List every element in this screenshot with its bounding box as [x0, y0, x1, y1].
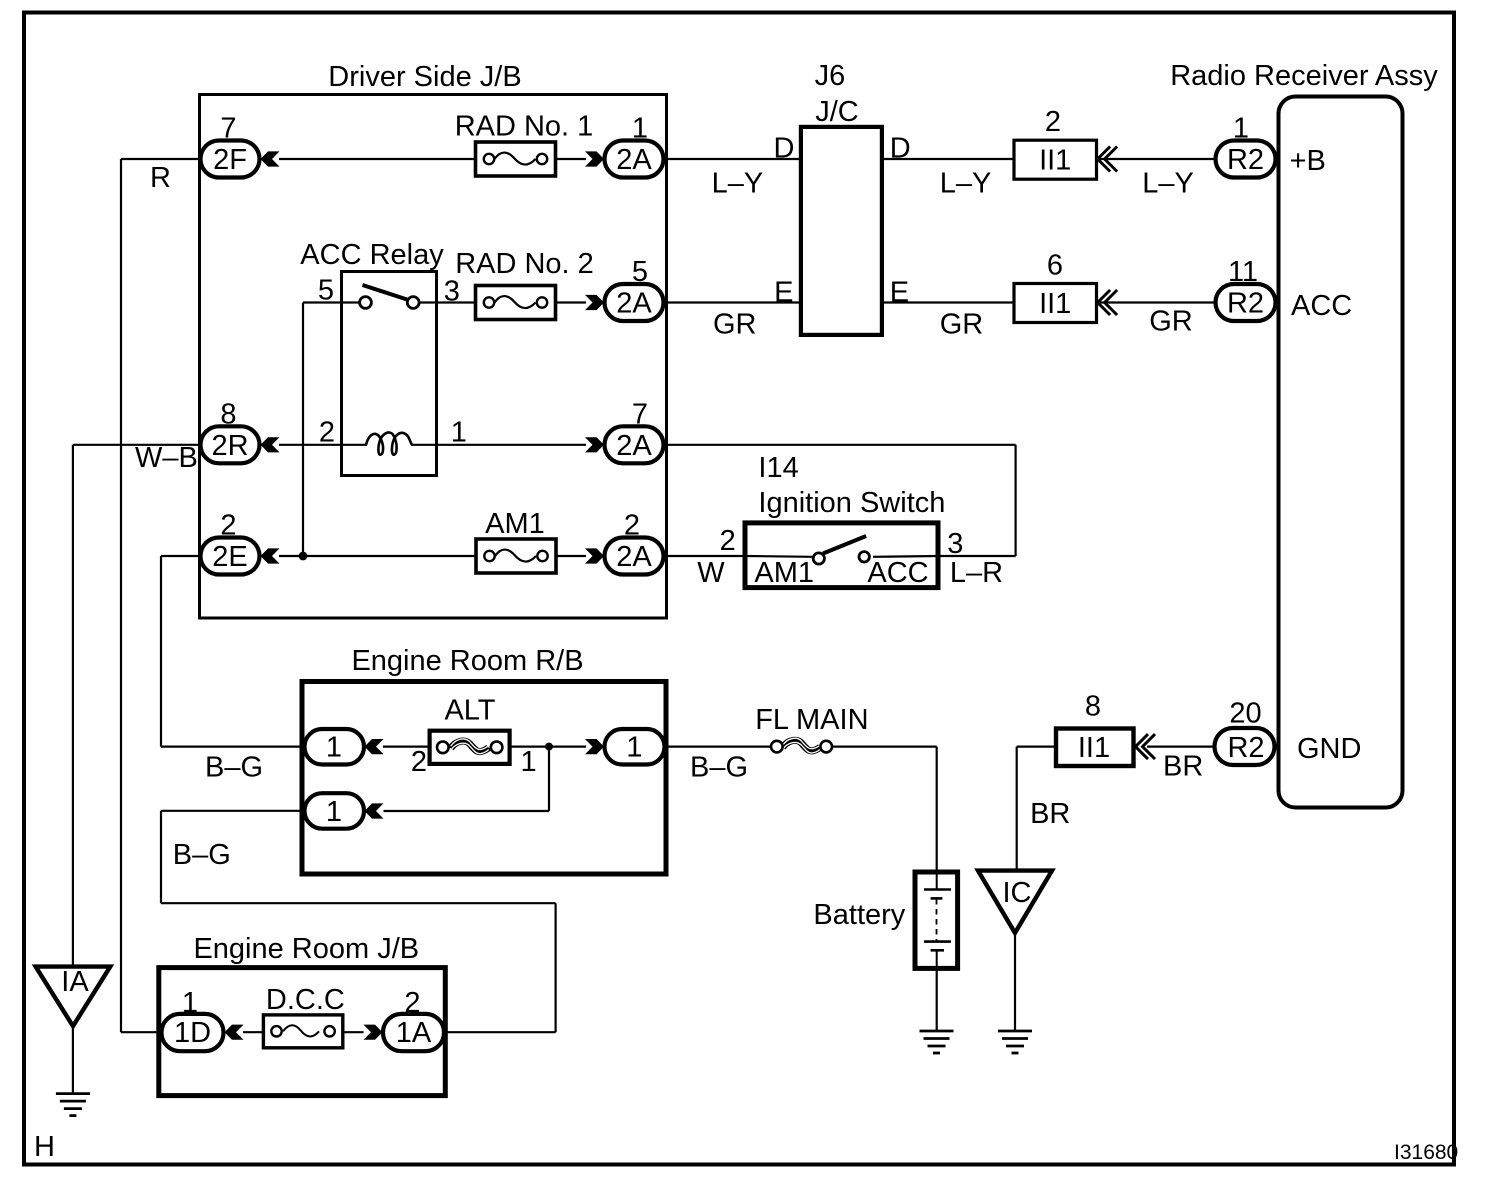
arrowhead into 2R [261, 437, 280, 452]
svg-text:IC: IC [1003, 877, 1032, 909]
svg-text:RAD No. 1: RAD No. 1 [455, 111, 594, 143]
wire row1 2F to RAD No.1 [279, 158, 476, 160]
wire AM1 to 2A [556, 555, 586, 557]
svg-text:GR: GR [940, 309, 984, 341]
fusible element ALT braid [451, 739, 489, 754]
fuse AM1 [476, 539, 556, 573]
svg-text:GR: GR [1149, 306, 1193, 338]
svg-text:2F: 2F [213, 144, 247, 176]
svg-text:B–G: B–G [690, 752, 748, 784]
node ALT output junction [545, 743, 553, 751]
svg-text:1A: 1A [396, 1017, 432, 1049]
svg-text:2: 2 [411, 746, 427, 778]
wire W 2A to ignition switch [663, 555, 746, 557]
svg-text:L–R: L–R [950, 557, 1003, 589]
svg-text:2A: 2A [616, 288, 652, 320]
svg-text:Engine Room J/B: Engine Room J/B [193, 933, 419, 965]
wire GR II1 to R2 [1100, 301, 1216, 303]
wire B-G vertical 2E to R/B [160, 556, 162, 747]
node junction at 2E [299, 552, 308, 561]
component Radio Receiver Assy box [1279, 97, 1403, 808]
svg-text:11: 11 [1228, 256, 1258, 288]
svg-text:ACC: ACC [1291, 290, 1352, 322]
connector R2 pin 1 [1216, 141, 1276, 178]
relay contact blade [363, 285, 408, 300]
wire coil pin1 to 2A [411, 444, 586, 446]
svg-text:Battery: Battery [813, 899, 905, 931]
svg-text:D: D [890, 133, 911, 165]
wire ignition riser vertical [1014, 445, 1016, 556]
svg-text:B–G: B–G [205, 752, 263, 784]
wire B-G drop to 1A [554, 903, 556, 1032]
svg-text:3: 3 [444, 276, 460, 308]
wire into second R/B oval [384, 810, 550, 812]
wire 2E left to B-G drop [161, 555, 200, 557]
connector 2R [201, 426, 260, 463]
wire junction drop to oval row [548, 747, 550, 811]
wire 2R to relay coil pin2 [279, 444, 367, 446]
svg-text:ACC Relay: ACC Relay [300, 239, 444, 271]
connector 1A [383, 1014, 444, 1051]
chevron into II1 pin8 [1136, 734, 1156, 759]
battery internal plates [924, 872, 951, 968]
connector II1 pin 2 [1014, 140, 1097, 179]
connector 1 lower row [305, 793, 365, 829]
wire L-R ignition pin3 [938, 555, 1016, 557]
svg-text:Ignition Switch: Ignition Switch [758, 487, 945, 519]
relay contact circles [360, 297, 372, 309]
fuse RAD No. 1 [476, 142, 556, 176]
svg-text:AM1: AM1 [754, 557, 814, 589]
svg-text:20: 20 [1229, 698, 1261, 730]
wire ignition internal left [746, 555, 812, 558]
svg-text:W–B: W–B [135, 442, 198, 474]
chevron into II1 row1 [1098, 147, 1118, 172]
wire FL MAIN to battery corner [833, 745, 937, 747]
relay ACC Relay box [342, 272, 437, 476]
svg-text:H: H [34, 1131, 55, 1163]
connector 2A pin 7 [605, 426, 664, 463]
svg-text:R2: R2 [1227, 732, 1264, 764]
wire battery vertical [936, 747, 938, 872]
svg-text:2: 2 [1045, 106, 1061, 138]
svg-text:II1: II1 [1078, 732, 1110, 764]
connector 2F [201, 141, 260, 178]
ground symbol below IC [998, 1031, 1032, 1053]
arrowhead into 2A pin1 [585, 151, 604, 166]
svg-text:5: 5 [632, 256, 648, 288]
svg-text:7: 7 [632, 398, 648, 430]
svg-text:2: 2 [319, 416, 335, 448]
junction connector J6 J/C [801, 127, 882, 335]
battery [915, 872, 958, 968]
ground triangle IA [36, 967, 111, 1027]
svg-text:2E: 2E [212, 541, 247, 573]
svg-text:5: 5 [318, 275, 334, 307]
svg-text:I31680: I31680 [1394, 1141, 1458, 1164]
arrowhead into 2A pin2 [585, 548, 604, 563]
wire GR 2A to J/C pin E [663, 301, 801, 303]
wire B-G bottom horizontal run [161, 902, 556, 904]
wire B-G into R/B oval 1 [161, 745, 305, 747]
svg-text:1: 1 [182, 987, 198, 1019]
connector 2E [201, 538, 260, 575]
ignition blade [823, 536, 866, 554]
ground triangle IC [978, 871, 1052, 933]
svg-text:8: 8 [1085, 691, 1101, 723]
svg-text:J6: J6 [815, 60, 846, 92]
wire R horizontal into 1D [121, 1031, 162, 1033]
svg-text:7: 7 [220, 113, 236, 145]
svg-text:R: R [150, 162, 171, 194]
arrowhead into 2E [261, 548, 280, 563]
arrowhead into lower oval 1 [365, 803, 384, 818]
svg-text:6: 6 [1047, 250, 1063, 282]
svg-text:2A: 2A [616, 430, 652, 462]
wire R/B oval to ALT fuse [383, 745, 430, 747]
arrowhead into right oval 1 [585, 739, 604, 754]
wire IC to ground [1014, 931, 1016, 1031]
chevron into II1 row2 [1098, 290, 1118, 315]
ground symbol below IA [56, 1094, 90, 1116]
svg-text:L–Y: L–Y [940, 168, 992, 200]
wire battery to ground [936, 968, 938, 1031]
svg-text:FL MAIN: FL MAIN [755, 704, 868, 736]
connector 1D [162, 1014, 224, 1051]
svg-text:RAD No. 2: RAD No. 2 [455, 248, 594, 280]
wire 2E to AM1 fuse [279, 555, 476, 557]
svg-text:GR: GR [713, 309, 757, 341]
arrowhead into 2F [261, 151, 280, 166]
svg-text:+B: +B [1290, 145, 1326, 177]
wire BR vertical to IC [1016, 747, 1018, 871]
svg-text:2: 2 [404, 987, 420, 1019]
svg-text:I14: I14 [758, 452, 798, 484]
svg-text:2: 2 [624, 510, 640, 542]
fuse RAD No. 2 [476, 286, 556, 320]
wire B-G vertical to bottom run [160, 811, 162, 903]
wire 1D to D.C.C [243, 1031, 264, 1033]
wire BR II1 to R2 GND [1147, 745, 1215, 747]
connector R2 pin 20 [1215, 728, 1275, 765]
wire 2A pin7 to ignition riser [663, 444, 1016, 446]
wire RAD No.2 to 2A [555, 301, 586, 303]
wire ALT to right oval with node [510, 745, 586, 747]
svg-text:II1: II1 [1039, 288, 1071, 320]
arrowhead into 2A pin5 [585, 295, 604, 310]
wire W-B vertical to IA [72, 445, 74, 967]
wire B-G right oval to FL MAIN [665, 745, 771, 747]
svg-text:1: 1 [326, 732, 342, 764]
fuse D.C.C [263, 1015, 342, 1048]
connector 1 right of ALT [605, 729, 665, 765]
arrowhead into 1A [364, 1025, 383, 1040]
svg-text:W: W [697, 557, 725, 589]
svg-text:GND: GND [1297, 733, 1361, 765]
relay block Engine Room R/B [302, 682, 666, 875]
svg-text:1: 1 [451, 416, 467, 448]
connector R2 pin 11 [1216, 284, 1276, 321]
junction block Engine Room J/B [159, 968, 446, 1096]
svg-text:Radio Receiver Assy: Radio Receiver Assy [1170, 60, 1438, 92]
junction block Driver Side J/B [200, 95, 667, 619]
svg-text:8: 8 [220, 398, 236, 430]
wire ignition internal right [873, 555, 938, 558]
wire W-B row3 left of 2R [73, 444, 200, 446]
connector 2A pin 5 [605, 284, 664, 321]
svg-text:E: E [890, 277, 909, 309]
wire relay pin3 to RAD No.2 [420, 301, 476, 303]
svg-text:1: 1 [626, 732, 642, 764]
svg-text:2A: 2A [616, 541, 652, 573]
svg-text:2: 2 [220, 510, 236, 542]
wire D.C.C to 1A [343, 1031, 364, 1033]
svg-text:1: 1 [521, 746, 537, 778]
wire vertical pin5 to 2E node [302, 303, 304, 557]
wire R row1 left of 2F [121, 158, 200, 160]
svg-text:3: 3 [947, 528, 963, 560]
relay coil winding [366, 432, 412, 454]
wire row1 RAD No.1 to 2A [555, 158, 586, 160]
svg-text:BR: BR [1030, 798, 1070, 830]
svg-text:B–G: B–G [173, 839, 231, 871]
switch I14 Ignition Switch [745, 523, 938, 588]
svg-text:D.C.C: D.C.C [266, 984, 345, 1016]
svg-text:II1: II1 [1039, 144, 1071, 176]
svg-text:1: 1 [632, 113, 648, 145]
svg-text:1D: 1D [174, 1017, 211, 1049]
wire L-Y II1 to R2 [1100, 158, 1216, 160]
svg-text:2A: 2A [616, 144, 652, 176]
ignition contact circles [813, 553, 824, 564]
svg-text:1: 1 [1233, 113, 1249, 145]
wire IA stem to ground [72, 1026, 74, 1094]
wire B-G second oval left [161, 810, 305, 812]
connector II1 pin 6 [1014, 284, 1097, 323]
svg-text:2: 2 [720, 525, 736, 557]
arrowhead into 1D [225, 1025, 244, 1040]
wire ACC relay pin5 stub [303, 301, 359, 303]
connector II1 pin 8 [1056, 729, 1134, 767]
fuse ALT [430, 731, 510, 764]
wire into 1A right side [444, 1031, 556, 1033]
svg-text:E: E [774, 277, 793, 309]
svg-text:R2: R2 [1227, 288, 1264, 320]
svg-text:IA: IA [61, 966, 89, 998]
arrowhead into left oval 1 [365, 739, 384, 754]
svg-text:L–Y: L–Y [712, 168, 764, 200]
svg-text:Engine Room R/B: Engine Room R/B [351, 645, 583, 677]
connector 2A pin 1 [605, 141, 664, 178]
wire L-Y 2A to J/C pin D [663, 158, 801, 160]
svg-text:ALT: ALT [444, 695, 495, 727]
svg-text:1: 1 [326, 796, 342, 828]
wire R vertical drop to 1D [120, 159, 122, 1032]
svg-text:D: D [774, 133, 795, 165]
ground symbol below battery [920, 1031, 954, 1053]
svg-text:BR: BR [1163, 751, 1203, 783]
svg-text:L–Y: L–Y [1142, 168, 1194, 200]
svg-text:ACC: ACC [867, 557, 928, 589]
arrowhead into 2A pin7 [585, 437, 604, 452]
wire L-Y J/C to II1 [882, 158, 1015, 160]
svg-text:AM1: AM1 [485, 508, 545, 540]
wire BR IC riser horizontal [1017, 745, 1055, 747]
wire GR J/C to II1 [882, 301, 1015, 303]
svg-text:2R: 2R [211, 430, 248, 462]
connector 2A pin 2 [605, 538, 664, 575]
svg-text:R2: R2 [1227, 144, 1264, 176]
svg-text:J/C: J/C [815, 96, 859, 128]
svg-text:Driver Side J/B: Driver Side J/B [328, 61, 521, 93]
connector 1 left of ALT [305, 729, 365, 765]
